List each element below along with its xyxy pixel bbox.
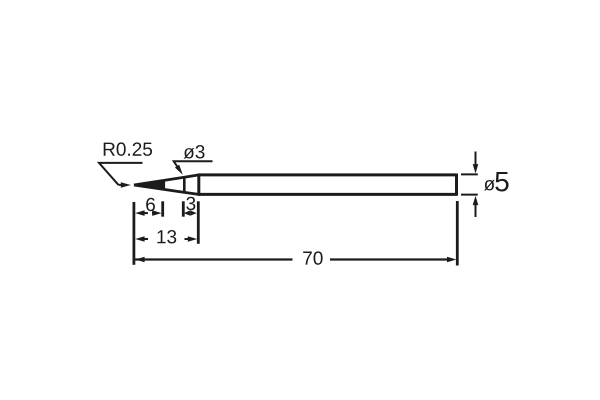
extension line right (rod end, for 70) <box>456 201 459 266</box>
diameter-5 extension line top <box>461 173 478 175</box>
body outline <box>199 174 457 196</box>
dimension 70 arrow left <box>135 257 144 263</box>
label R0.25 <box>104 142 152 155</box>
extension tick right of 3 and 13 <box>197 201 200 244</box>
label 70 <box>303 251 322 264</box>
dimension 70 line left part <box>135 258 293 260</box>
division line at end of ground section <box>183 176 186 193</box>
extension tick right of 6 <box>161 201 164 216</box>
leader diameter-3 arrowhead <box>175 165 183 175</box>
label diameter-5 digit <box>495 172 508 192</box>
label diameter-3 <box>184 145 205 159</box>
leader R0.25 <box>99 163 143 185</box>
extension tick left of 3 <box>182 201 185 216</box>
dimension 13 arrow right <box>185 238 192 240</box>
dimension 70 line right part <box>330 258 452 260</box>
label 3 <box>186 197 195 210</box>
dimension 6 arrow left <box>141 212 148 214</box>
tip cone outline <box>134 175 199 195</box>
label 6 <box>146 198 155 211</box>
dimension 6 arrow right <box>152 212 156 214</box>
leader diameter-3 <box>174 161 213 171</box>
diameter-5 arrow top <box>475 152 477 166</box>
diameter-5 extension line bottom <box>461 194 478 196</box>
diameter-5 arrow bottom <box>475 204 477 218</box>
dimension 3 arrow right <box>190 210 197 215</box>
label diameter-5 symbol <box>484 180 495 191</box>
label 13 <box>157 230 176 243</box>
leader R0.25 arrowhead <box>121 182 131 187</box>
black tip fill <box>134 180 165 190</box>
dimension 70 arrow right <box>447 257 456 263</box>
extension line left (from tip apex) <box>132 202 135 265</box>
division line at body start <box>197 174 200 196</box>
dimension 13 arrow left <box>141 238 148 240</box>
dimension 3 arrow left <box>184 210 191 215</box>
